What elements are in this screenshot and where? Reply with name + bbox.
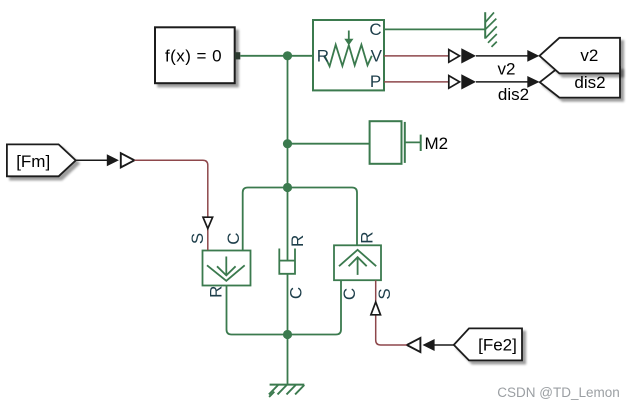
PS arrowhead (dis2 row)	[449, 76, 460, 89]
svg-text:f(x) = 0: f(x) = 0	[165, 46, 222, 65]
arrowhead into converter (Fm)	[107, 154, 119, 166]
svg-text:S: S	[375, 288, 394, 299]
wire: sensor C to reference wall	[384, 28, 485, 30]
junction node B (mass branch)	[283, 139, 292, 148]
mechanical reference wall	[485, 12, 497, 47]
signal wire dis2	[476, 81, 528, 83]
sensor U1 (ideal translational motion sensor)	[313, 20, 384, 91]
svg-text:[Fm]: [Fm]	[16, 152, 50, 171]
svg-text:C: C	[224, 232, 243, 244]
wire: solver output to sensor R port	[240, 55, 313, 57]
junction node C (top rail)	[283, 183, 292, 192]
wire: main vertical, node B to node C	[287, 144, 289, 188]
PS wire: converter to F2 S port	[376, 280, 407, 345]
wire: main vertical, node A to node B	[287, 56, 289, 144]
signal wire from Fe2	[434, 344, 453, 346]
wire: damper C to bottom rail	[287, 274, 289, 335]
force source F1	[188, 232, 250, 297]
svg-text:C: C	[340, 288, 359, 300]
svg-text:v2: v2	[580, 46, 598, 65]
svg-text:R: R	[206, 286, 225, 298]
wire: bottom rail from F1 R port to F2 C port	[227, 280, 342, 334]
svg-text:dis2: dis2	[574, 73, 605, 92]
converter Simulink-PS (Fm)	[121, 153, 135, 167]
wire: node D to ground	[287, 335, 289, 385]
svg-text:R: R	[357, 231, 376, 243]
svg-text:[Fe2]: [Fe2]	[478, 336, 517, 355]
wire: node B to mass M2	[288, 143, 370, 145]
junction node A	[283, 51, 292, 60]
arrowhead into goto dis2	[527, 76, 539, 88]
svg-text:S: S	[188, 233, 207, 244]
converter PS-Simulink (dis2)	[461, 74, 476, 89]
mass M2	[370, 121, 449, 164]
solver block f(x)=0	[155, 27, 240, 83]
svg-text:M2: M2	[425, 134, 449, 153]
damper D1	[279, 188, 307, 300]
converter PS-Simulink (v2)	[461, 48, 476, 63]
PS wire: sensor P to converter	[384, 81, 449, 83]
signal wire from Fm	[76, 159, 108, 161]
svg-text:v2: v2	[498, 60, 516, 79]
svg-text:C: C	[287, 287, 306, 299]
goto v2	[540, 38, 621, 74]
svg-text:C: C	[369, 20, 381, 39]
PS arrowhead into F2 S port	[371, 302, 381, 315]
svg-text:P: P	[370, 72, 381, 91]
from tag Fm	[7, 144, 76, 176]
signal wire v2	[476, 55, 528, 57]
ground (mechanical translational reference)	[269, 385, 304, 397]
arrowhead into goto v2	[527, 50, 539, 62]
force source F2	[334, 231, 394, 300]
PS wire: converter to F1 S port	[134, 160, 207, 250]
svg-text:dis2: dis2	[498, 85, 529, 104]
from tag Fe2	[454, 328, 522, 360]
junction node D (bottom rail)	[283, 330, 292, 339]
PS wire: sensor V to converter	[384, 55, 449, 57]
PS arrowhead into F1 S port	[203, 217, 213, 228]
wire: top rail from F1 C port to F2 R port	[243, 188, 357, 251]
converter Simulink-PS (Fe2)	[407, 338, 421, 352]
svg-text:R: R	[317, 47, 329, 66]
svg-text:CSDN @TD_Lemon: CSDN @TD_Lemon	[497, 385, 620, 400]
svg-text:R: R	[288, 235, 307, 247]
goto dis2	[540, 67, 620, 98]
arrowhead into converter (Fe2)	[423, 339, 435, 351]
PS arrowhead (v2 row)	[449, 50, 460, 63]
svg-text:V: V	[371, 47, 383, 66]
